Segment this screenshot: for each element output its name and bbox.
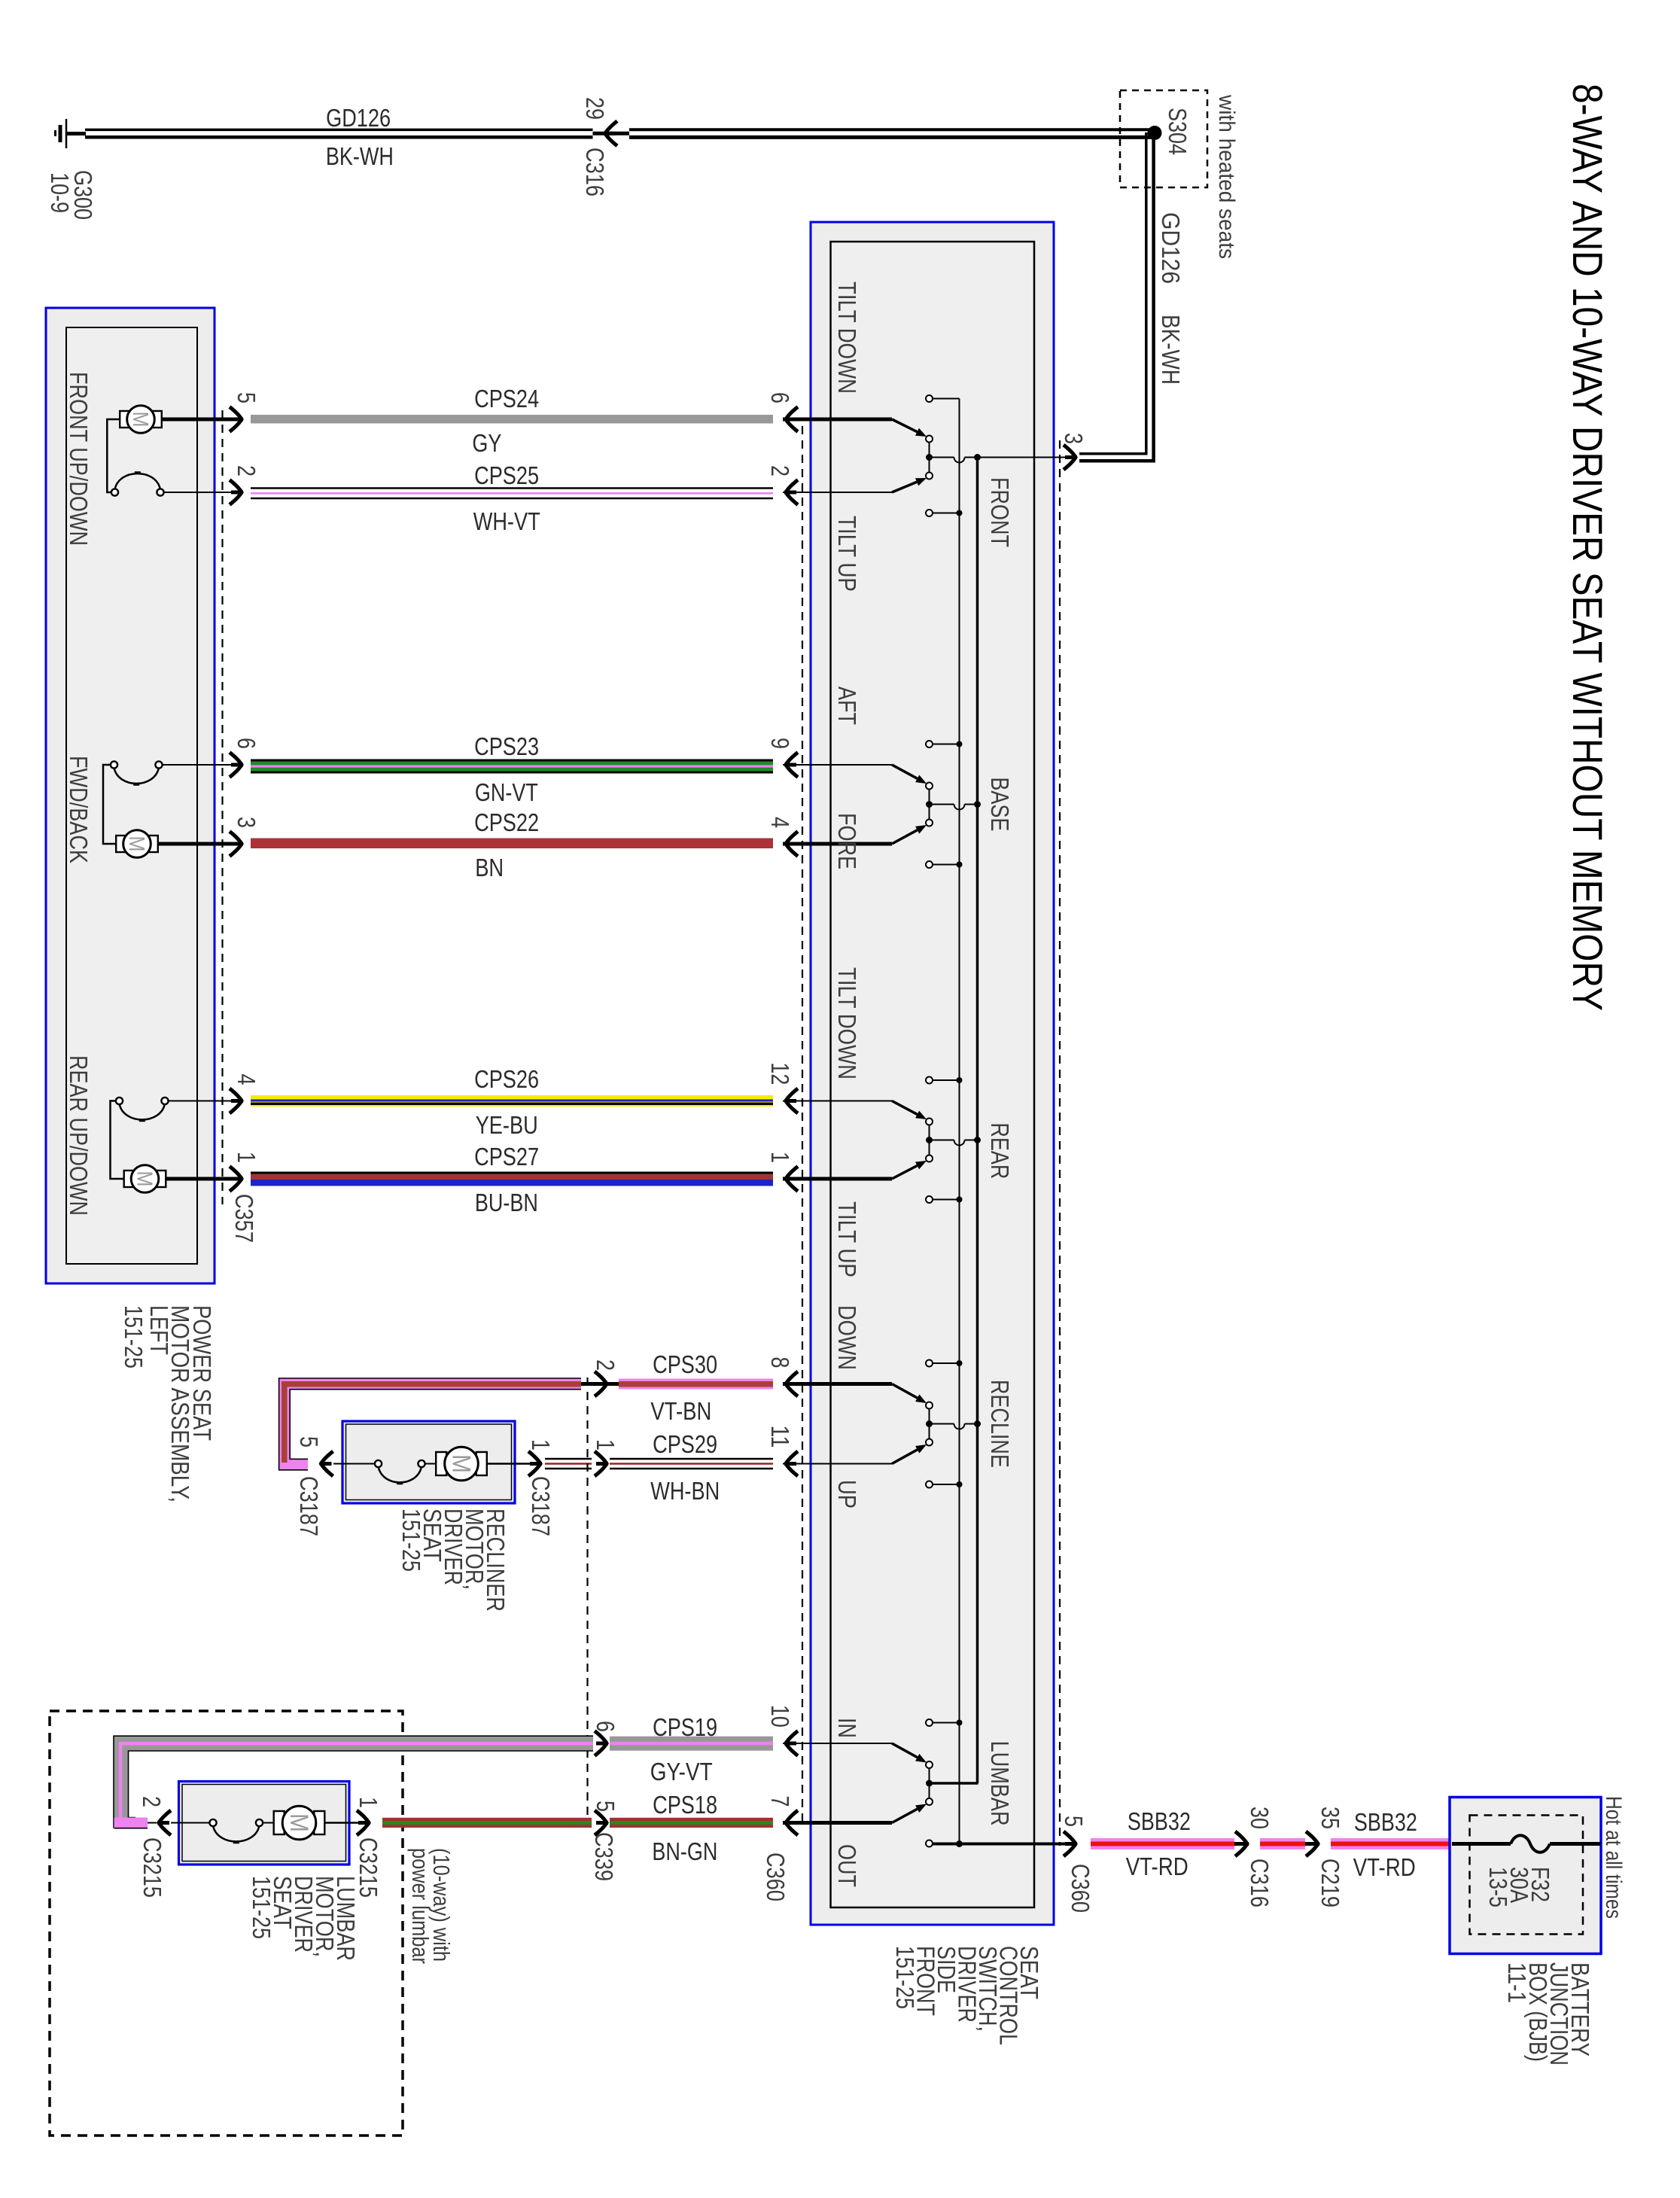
svg-text:GD126: GD126 [326,104,391,132]
connector line C360 left [802,426,803,1828]
wire CPS24 GY [251,415,773,424]
wire CPS22 BN [251,839,773,849]
switch contacts recliner [333,1460,437,1484]
connector arrow pin 6 C360 [784,407,798,432]
label pin 12 right [766,1062,794,1085]
connector arrow pin 11 C360 [784,1451,798,1476]
svg-text:BK-WH: BK-WH [1157,315,1185,385]
label POWER SEAT MOTOR ASSEMBLY LEFT 151-25 [120,1305,216,1502]
label FRONT UP/DOWN [65,372,93,546]
recliner motor box [342,1421,515,1503]
lead into switch row pin 9 [783,764,892,766]
switch contacts fwd/back [111,761,163,784]
label pin 2 left [233,465,260,476]
label YE-BU [476,1111,538,1139]
connector arrow pin 7 C360 [784,1810,798,1835]
output line to pin 5 C360 [933,1840,1070,1847]
label C3187 left [295,1476,323,1536]
label C316 sbb [1246,1859,1274,1907]
switch contacts lumbar [171,1819,277,1843]
lead motor rear [166,1177,232,1181]
svg-text:CPS30: CPS30 [653,1350,717,1378]
svg-text:BN: BN [475,854,504,881]
svg-text:7: 7 [766,1796,794,1807]
label FWD/BACK [65,756,93,863]
svg-text:3: 3 [1060,433,1088,444]
svg-text:C360: C360 [1067,1864,1094,1913]
connector arrow pin 5 C360 [1064,1831,1077,1856]
svg-text:M: M [128,412,152,428]
label C360 bottom [1067,1864,1094,1913]
label pin 1 right [766,1152,794,1163]
svg-text:13-5: 13-5 [1484,1867,1512,1907]
svg-text:8: 8 [766,1357,794,1368]
seat control switch box [811,222,1054,1925]
label C357 [230,1194,258,1243]
connector line C360 right [1059,440,1061,1846]
label 3 [1060,433,1088,444]
label pin 10 right [766,1705,794,1728]
svg-text:12: 12 [766,1062,794,1085]
svg-text:3: 3 [233,817,260,828]
label C219 [1316,1859,1344,1907]
label GY-VT [650,1758,713,1785]
connector arrow pin 2 C357 row y=654 [230,480,243,505]
svg-text:29: 29 [581,97,609,120]
bus B to lumbar common [930,1782,978,1785]
lead into switch row pin 4 [783,842,892,846]
label CPS30 pin 2 C339 [592,1359,619,1371]
svg-text:DOWN: DOWN [833,1305,861,1370]
motor M recliner [436,1447,487,1481]
svg-text:WH-VT: WH-VT [473,507,540,535]
connector arrow pin 6 C357 row y=1016 [230,753,243,778]
REAR top contact link [933,1077,963,1083]
label pin 5 left [233,392,260,403]
svg-text:6: 6 [592,1721,619,1732]
label pin 3 left [233,817,260,828]
label LUMBAR MOTOR DRIVER SEAT 151-25 [248,1876,360,1961]
wire SBB32 VT-RD segment 3 [1331,1838,1452,1849]
label pin 4 left [233,1074,260,1085]
label WH-VT [473,507,540,535]
wire SBB32 VT-RD segment 2 [1260,1838,1305,1849]
label C3215 left [138,1837,166,1898]
svg-text:C360: C360 [762,1852,790,1901]
svg-text:M: M [132,1171,157,1187]
wire switch to motor rear [111,1101,124,1180]
svg-text:1: 1 [592,1439,619,1451]
connector arrow pin 5 C357 row y=557 [230,407,243,432]
switch section BASE contacts [892,741,933,868]
label CPS19 pin 6 C339 [592,1721,619,1732]
REAR common to bus B [930,1137,982,1146]
lead into switch row pin 11 [783,1463,892,1465]
motor M rear up/down [124,1165,166,1193]
svg-text:FWD/BACK: FWD/BACK [65,756,93,863]
svg-text:11-1: 11-1 [1503,1962,1531,2003]
wire GD126 BK-WH right segment [629,129,1152,137]
front common feed line to pin 3 [930,454,1070,463]
label GN-VT [475,778,538,806]
connector arrow pin 12 C360 [784,1088,798,1113]
svg-text:4: 4 [766,817,794,828]
svg-text:4: 4 [233,1074,260,1085]
connector line C357 [221,410,223,1204]
label pin 2 C3215 [138,1796,166,1807]
motor M lumbar [274,1806,325,1840]
wire CPS29 WH-BN segment a [545,1459,592,1469]
connector arrow CPS18 pin 5 C339 [595,1810,608,1835]
svg-text:2: 2 [592,1359,619,1371]
wire GD126 BK-WH vertical segment [1079,132,1154,461]
svg-text:C3187: C3187 [295,1476,323,1536]
lead into switch row pin 2 [783,492,892,493]
svg-text:YE-BU: YE-BU [476,1111,538,1139]
label CPS23 [474,732,539,760]
connector arrow pin 2 C360 [784,480,798,505]
label CPS30 [653,1350,717,1378]
svg-text:11: 11 [766,1425,794,1448]
lead into switch row pin 1 [783,1177,892,1181]
svg-text:GY-VT: GY-VT [650,1758,713,1785]
svg-text:CPS22: CPS22 [474,808,539,836]
svg-text:8-WAY AND 10-WAY DRIVER SEAT W: 8-WAY AND 10-WAY DRIVER SEAT WITHOUT MEM… [1564,84,1612,1011]
label pin 6 left [233,738,260,749]
svg-text:2: 2 [138,1796,166,1807]
svg-text:TILT DOWN: TILT DOWN [833,967,861,1079]
label VT-BN [650,1397,711,1425]
label pin 2 right [766,465,794,476]
label S304 [1164,108,1192,155]
svg-text:35: 35 [1316,1807,1344,1829]
svg-text:1: 1 [355,1797,382,1808]
svg-text:C316: C316 [1246,1859,1274,1907]
svg-text:SBB32: SBB32 [1354,1808,1417,1836]
svg-text:BASE: BASE [986,777,1014,831]
label BN [475,854,504,881]
lead into switch row pin 8 [783,1382,892,1386]
svg-text:VT-BN: VT-BN [650,1397,711,1425]
label GD126 [326,104,391,132]
label pin 1 left [233,1152,260,1163]
svg-text:BN-GN: BN-GN [652,1837,717,1865]
label pin 11 right [766,1425,794,1448]
connector arrow pin 1 C3187 [528,1451,542,1476]
label CPS25 [474,461,539,489]
label pin 30 [1246,1807,1274,1829]
svg-text:C339: C339 [590,1832,618,1881]
svg-text:LEFT: LEFT [145,1305,173,1355]
svg-text:WH-BN: WH-BN [650,1477,720,1505]
label C316 [581,148,609,196]
connector arrow pin 5 C3187 [320,1451,333,1476]
REAR bottom contact link [933,1197,963,1203]
wire CPS26 YE-BU [251,1095,773,1107]
connector arrow CPS29 pin 1 C339 [595,1451,608,1476]
label REAR UP/DOWN [65,1055,93,1216]
svg-text:30: 30 [1246,1807,1274,1829]
switch bus line A (battery side) [959,399,960,1844]
wire CPS19 GY-VT right segment [610,1737,773,1751]
switch contacts front up/down [111,473,164,496]
label 10-way with power lumbar [407,1848,455,1964]
svg-text:1: 1 [766,1152,794,1163]
label BK-WH vertical [1157,315,1185,385]
svg-text:power lumbar: power lumbar [407,1848,434,1964]
wire GD126 BK-WH left segment [85,129,593,137]
svg-text:FORE: FORE [833,813,861,869]
label with heated seats [1214,94,1239,259]
svg-text:5: 5 [295,1436,323,1448]
svg-text:9: 9 [766,738,794,749]
front top contact to bus A corner [933,398,960,400]
svg-text:RECLINE: RECLINE [986,1380,1014,1468]
svg-text:2: 2 [766,465,794,476]
label SEAT CONTROL SWITCH DRIVER SIDE FRONT 151-25 [891,1946,1043,2045]
label CPS26 [474,1065,539,1093]
connector arrow pin 30 C316 [1234,1831,1249,1856]
svg-text:GD126: GD126 [1157,212,1185,284]
wire CPS25 WH-VT [251,489,773,499]
label CPS27 [474,1143,539,1171]
RECLINE top contact link [933,1360,963,1366]
label GY [472,429,501,457]
label C3215 right [355,1837,382,1898]
label CPS29 [653,1430,717,1458]
BASE bottom contact link [933,862,963,868]
label pin 6 right [766,392,794,403]
wire SBB32 VT-RD segment 1 [1091,1838,1234,1849]
svg-text:REAR UP/DOWN: REAR UP/DOWN [65,1055,93,1216]
svg-text:OUT: OUT [833,1844,861,1887]
label pin 5 bottom [1060,1816,1088,1827]
wire CPS29 WH-BN segment b [610,1459,773,1469]
label GD126 vertical [1157,212,1185,284]
lead lumbar arrow [148,1822,157,1824]
switch section LUMBAR contacts [892,1719,933,1847]
label G300 10-9 [46,170,97,220]
label C3187 right [527,1476,555,1536]
RECLINE common to bus B [930,1420,982,1429]
lead into switch row pin 6 [783,418,892,422]
switch section REAR contacts [892,1077,933,1204]
lumbar motor box [179,1782,350,1865]
lead into switch row pin 12 [783,1101,892,1102]
svg-text:REAR: REAR [986,1122,1014,1179]
svg-text:151-25: 151-25 [248,1876,275,1939]
svg-text:C219: C219 [1316,1859,1344,1907]
svg-text:CPS27: CPS27 [474,1143,539,1171]
fuse F32 30A [1452,1835,1601,1852]
connector arrow pin 8 C360 [784,1371,798,1396]
svg-text:5: 5 [1060,1816,1088,1827]
lead switch rear [168,1101,232,1102]
connector arrow pin 3 C357 row y=1121 [230,832,243,857]
lead into switch row pin 10 [783,1743,892,1744]
svg-text:with heated seats: with heated seats [1214,94,1239,259]
label pin 1 C3187 [527,1439,555,1451]
label F32 30A 13-5 [1484,1867,1554,1907]
switch group labels [986,477,1014,1826]
svg-text:BU-BN: BU-BN [475,1189,538,1216]
label CPS19 [653,1713,717,1741]
svg-text:6: 6 [766,392,794,403]
switch section RECLINE contacts [892,1360,933,1488]
svg-text:M: M [124,836,148,852]
connector arrow CPS19 pin 6 C339 [595,1731,608,1756]
label pin 7 right [766,1796,794,1807]
label BN-GN [652,1837,717,1865]
svg-text:FRONT UP/DOWN: FRONT UP/DOWN [65,372,93,546]
label 29 [581,97,609,120]
wire CPS18 BN-GN segment b [610,1818,773,1828]
connector arrow pin 1 C357 row y=1566 [230,1167,243,1192]
label CPS22 [474,808,539,836]
LUMBAR top contact link [933,1720,963,1726]
label C360 under pin 7 [762,1852,790,1901]
svg-text:2: 2 [233,465,260,476]
label pin 1 C3215 [355,1797,382,1808]
label VT-RD first [1126,1852,1188,1880]
label WH-BN [650,1477,720,1505]
svg-text:151-25: 151-25 [397,1508,425,1572]
splice S304 with dashed option box [1120,90,1207,187]
svg-text:CPS18: CPS18 [653,1791,717,1819]
svg-text:C316: C316 [581,148,609,196]
FRONT bottom contact link [933,510,963,516]
svg-text:10-9: 10-9 [46,172,74,213]
label pin 35 [1316,1807,1344,1829]
svg-text:TILT UP: TILT UP [833,1201,861,1277]
label VT-RD second [1353,1853,1416,1881]
label BK-WH [326,142,394,170]
label BU-BN [475,1189,538,1216]
label CPS18 [653,1791,717,1819]
label SBB32 second [1354,1808,1417,1836]
svg-text:CPS19: CPS19 [653,1713,717,1741]
svg-text:6: 6 [233,738,260,749]
motor M fwd/back [116,830,158,858]
svg-text:TILT UP: TILT UP [833,516,861,592]
lead switch front [163,492,232,493]
svg-text:VT-RD: VT-RD [1126,1852,1188,1880]
svg-text:S304: S304 [1164,108,1192,155]
connector arrow pin 1 C360 [784,1167,798,1192]
connector arrow pin 4 C357 row y=1462.5 [230,1088,243,1113]
svg-text:VT-RD: VT-RD [1353,1853,1416,1881]
label CPS29 pin 1 C339 [592,1439,619,1451]
svg-text:Hot at all times: Hot at all times [1601,1796,1626,1919]
lead into switch row pin 7 [783,1821,892,1825]
label RECLINER MOTOR DRIVER SEAT 151-25 [397,1508,510,1612]
battery junction box [1450,1798,1601,1954]
wire switch to motor fwd/back [103,765,116,844]
svg-text:1: 1 [233,1152,260,1163]
svg-text:TILT DOWN: TILT DOWN [833,282,861,394]
label pin 9 right [766,738,794,749]
svg-text:SBB32: SBB32 [1128,1807,1191,1835]
svg-text:5: 5 [233,392,260,403]
label CPS24 [474,385,539,413]
connector line C339 [586,1378,588,1825]
lead recliner motor out [487,1463,531,1464]
svg-text:LUMBAR: LUMBAR [986,1741,1014,1826]
lead lumbar motor out [324,1822,360,1824]
RECLINE bottom contact link [933,1481,963,1487]
label CPS18 pin 5 C339 [592,1801,619,1812]
svg-text:C3187: C3187 [527,1476,555,1536]
svg-text:AFT: AFT [833,686,861,725]
svg-text:151-25: 151-25 [120,1305,148,1368]
connector arrow pin 10 C360 [784,1731,798,1756]
BASE common to bus B [930,801,982,810]
wire CPS18 BN-GN segment a [382,1818,592,1828]
connector arrow pin 35 C219 [1305,1831,1319,1856]
BASE top contact link [933,741,963,747]
dashed 10-way option box [50,1711,403,2136]
svg-text:5: 5 [592,1801,619,1812]
svg-text:10: 10 [766,1705,794,1728]
connector arrow pin 9 C360 [784,753,798,778]
label SBB32 first [1128,1807,1191,1835]
svg-text:M: M [285,1813,313,1832]
svg-text:UP: UP [833,1480,861,1508]
wire CPS30 VT-BN right segment [607,1379,773,1390]
switch direction labels [833,282,861,1887]
svg-text:CPS24: CPS24 [474,385,539,413]
svg-text:M: M [446,1454,475,1473]
svg-text:CPS26: CPS26 [474,1065,539,1093]
wire CPS23 GN-VT [251,760,773,774]
switch bus line B (feed side) [976,458,979,1784]
label pin 5 C3187 [295,1436,323,1448]
title 8-WAY AND 10-WAY DRIVER SEAT WITHOUT MEMORY [1564,84,1612,1011]
label BATTERY JUNCTION BOX 11-1 [1503,1962,1594,2066]
wire motor to switch front [107,419,119,492]
svg-text:1: 1 [527,1439,555,1451]
svg-text:BK-WH: BK-WH [326,142,394,170]
svg-text:CPS23: CPS23 [474,732,539,760]
svg-text:CPS29: CPS29 [653,1430,717,1458]
ground G300 [56,119,87,148]
switch contacts rear up/down [116,1097,169,1121]
label C339 [590,1832,618,1881]
wire CPS27 BU-BN [251,1173,773,1186]
svg-text:GY: GY [472,429,501,457]
connector arrow pin 2 C3215 [157,1810,171,1835]
label pin 4 right [766,817,794,828]
lead motor fwdback [159,842,233,846]
connector arrow pin 3 [1064,445,1077,470]
wire CPS30 VT-BN left L segment [279,1378,596,1470]
switch section FRONT contacts [892,395,933,516]
label Hot at all times [1601,1796,1626,1919]
svg-text:151-25: 151-25 [891,1946,919,2009]
power seat motor assembly box [46,308,215,1283]
label pin 8 right [766,1357,794,1368]
svg-text:FRONT: FRONT [986,477,1014,547]
lead motor front [163,418,233,422]
connector arrow 29 C316 [593,121,630,146]
motor M front up/down [120,406,162,434]
svg-text:IN: IN [833,1718,861,1738]
svg-text:GN-VT: GN-VT [475,778,538,806]
svg-text:C357: C357 [230,1194,258,1243]
lead switch fwdback [162,764,232,766]
connector arrow pin 1 C3215 [357,1810,370,1835]
connector arrow pin 4 C360 [784,832,798,857]
